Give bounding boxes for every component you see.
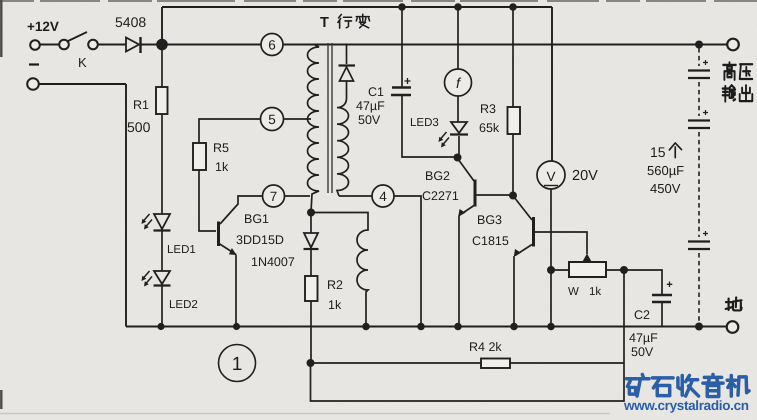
svg-text:3DD15D: 3DD15D (236, 233, 284, 247)
svg-text:R5: R5 (213, 141, 229, 155)
svg-text:R1: R1 (133, 98, 149, 112)
wire bottom feedback line (311, 270, 625, 401)
scan border left edge (0, 0, 2, 409)
wire: main +12V rail y=45 from diode junction to HV output (141, 44, 727, 46)
svg-text:LED1: LED1 (167, 244, 196, 256)
terminal ground (727, 321, 739, 333)
svg-text:50V: 50V (631, 345, 654, 359)
wire: upper rail left drop to diode junction (161, 7, 163, 45)
svg-text:C2: C2 (634, 308, 650, 322)
resistor R3 (508, 7, 521, 195)
svg-text:5408: 5408 (115, 14, 146, 30)
transformer secondary winding (337, 108, 349, 197)
transistor BG3 (514, 197, 587, 327)
svg-text:5: 5 (268, 112, 276, 127)
transformer T label: T 行变 (320, 14, 370, 31)
svg-text:65k: 65k (479, 121, 500, 135)
label minus sign (29, 63, 39, 65)
svg-text:K: K (78, 55, 87, 70)
svg-text:1: 1 (232, 354, 243, 375)
wire: upper rail right drop to voltmeter (551, 7, 553, 161)
wire: upper rail (162, 6, 552, 8)
svg-text:C1: C1 (368, 85, 384, 99)
wire: switch to diode (40, 44, 126, 46)
wire: bottom ground bus (126, 326, 727, 328)
label 高压输出 (723, 62, 753, 101)
svg-text:47µF: 47µF (356, 99, 385, 113)
svg-text:500: 500 (127, 119, 151, 135)
voltmeter V (537, 161, 565, 327)
svg-text:20V: 20V (572, 168, 598, 184)
capacitor bank 15x 560uF dashed column (688, 41, 710, 327)
svg-text:50V: 50V (358, 113, 381, 127)
svg-text:1N4007: 1N4007 (251, 255, 295, 269)
junction diode output node (156, 39, 168, 51)
diode 5408 (126, 37, 141, 53)
figure number 1 (219, 345, 256, 382)
terminal HV output (727, 39, 739, 51)
svg-text:BG2: BG2 (425, 169, 450, 183)
svg-text:560µF: 560µF (647, 163, 684, 178)
svg-text:450V: 450V (650, 181, 681, 196)
svg-text:+12V: +12V (27, 19, 59, 34)
diode secondary rectifier (339, 45, 356, 108)
resistor R4 (311, 359, 625, 369)
junction primary bottom node (307, 209, 315, 217)
junction feedback winding to ground bus (362, 323, 370, 331)
watermark 矿石收音机 (626, 374, 749, 396)
scan border top edge (0, 0, 757, 2)
svg-text:1k: 1k (328, 298, 342, 312)
LED LED2 (142, 271, 171, 327)
wire: minus terminal horizontal (39, 83, 126, 85)
svg-text:R4 2k: R4 2k (469, 340, 502, 354)
svg-text:T: T (320, 15, 329, 31)
svg-text:www.crystalradio.cn: www.crystalradio.cn (623, 398, 749, 413)
switch K (59, 32, 98, 49)
label 地 (726, 297, 742, 310)
junction BG3 base node (509, 192, 517, 200)
svg-text:7: 7 (270, 189, 278, 204)
svg-text:47µF: 47µF (629, 331, 658, 345)
junction R4 left node (307, 359, 315, 367)
junction node-4 branch to ground bus (417, 323, 425, 331)
junction BG3 emitter to ground bus (510, 323, 518, 331)
junction LED chain to ground bus (157, 323, 164, 330)
resistor R2 (305, 276, 318, 363)
resistor R5 with wires to node 5 and BG1 base (193, 119, 260, 231)
svg-text:C1815: C1815 (472, 234, 509, 248)
diode 1N4007 (304, 212, 319, 276)
junction R3 branch on upper rail (509, 3, 517, 11)
svg-text:R3: R3 (480, 102, 496, 116)
meter F (445, 7, 472, 122)
svg-text:C2271: C2271 (422, 189, 459, 203)
svg-text:V: V (546, 169, 555, 184)
svg-text:4: 4 (379, 189, 387, 204)
node 4 (339, 185, 421, 327)
label 15个 (650, 143, 682, 160)
junction meter F branch on upper rail (454, 3, 462, 11)
junction ground bank node (695, 323, 703, 331)
LED LED1 (142, 214, 171, 271)
inductor feedback winding (311, 213, 368, 327)
svg-text:LED3: LED3 (410, 117, 439, 129)
svg-text:LED2: LED2 (169, 299, 198, 311)
svg-text:1k: 1k (215, 160, 229, 174)
scan border bottom faint line (0, 413, 610, 415)
junction pot left node (547, 266, 555, 274)
junction LED3 bottom node (454, 154, 462, 162)
node 6 (261, 34, 283, 56)
junction pot right node (620, 266, 628, 274)
svg-text:15: 15 (650, 144, 666, 160)
junction BG1 emitter to ground bus (233, 323, 240, 330)
capacitor C2 (624, 270, 672, 327)
svg-text:R2: R2 (327, 278, 343, 292)
LED LED3 (439, 122, 469, 157)
potentiometer W 1k (551, 254, 624, 278)
node 5 (261, 108, 312, 131)
resistor R1 (156, 45, 168, 214)
transformer primary winding (308, 45, 320, 213)
transistor BG2 (458, 159, 513, 327)
transistor BG1 (219, 196, 263, 327)
junction BG2 emitter to ground bus (454, 323, 462, 331)
svg-text:BG3: BG3 (477, 213, 502, 227)
junction C1 branch on upper rail (398, 3, 406, 11)
svg-text:W: W (568, 286, 579, 298)
wire: minus branch vertical (125, 84, 127, 327)
junction voltmeter branch to ground bus (547, 323, 555, 331)
svg-text:6: 6 (268, 38, 276, 53)
node 7 (263, 185, 311, 207)
terminal minus (27, 78, 39, 90)
svg-text:BG1: BG1 (244, 212, 269, 226)
transformer core (328, 43, 332, 193)
svg-text:1k: 1k (589, 286, 601, 298)
terminal +12V (30, 40, 40, 50)
capacitor C1 (391, 7, 457, 157)
